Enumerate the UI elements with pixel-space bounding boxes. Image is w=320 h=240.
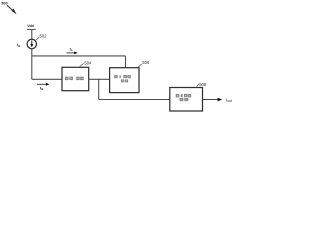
current arrow IL <box>67 52 78 55</box>
svg-text:504: 504 <box>84 60 92 65</box>
wire node A down left branch <box>31 56 33 79</box>
power label Vdd <box>27 24 34 28</box>
node A : main horizontal wire <box>32 55 126 57</box>
output arrow Iout <box>203 98 223 102</box>
label 506 with leader <box>138 60 150 67</box>
svg-text:B: B <box>18 44 20 48</box>
wire current source to node A <box>31 49 33 56</box>
svg-text:508: 508 <box>199 82 207 87</box>
svg-text:L: L <box>71 48 73 52</box>
svg-text:506: 506 <box>142 60 150 65</box>
svg-text:500: 500 <box>1 1 7 5</box>
label Iout <box>226 98 232 103</box>
wire 504 to 506 <box>89 78 110 80</box>
text in 506 line1 (blurred CJK) <box>114 75 131 78</box>
block 504 current module <box>62 67 89 90</box>
wire into module 504 <box>32 78 62 80</box>
text in 508 line2 (blurred CJK) <box>180 98 189 101</box>
label 504 with leader <box>80 60 92 67</box>
current arrow IB into 504 <box>37 83 50 86</box>
wire Vdd to current source <box>31 29 33 39</box>
label 502 with leader <box>36 34 48 41</box>
label IB under arrow <box>40 85 44 91</box>
junction drop wire to 508 <box>99 79 170 99</box>
svg-text:out: out <box>227 99 232 103</box>
label IB left of current source <box>17 42 21 48</box>
label 508 with leader <box>197 82 207 87</box>
wire node A right end down into 506 <box>125 56 127 68</box>
block 506 first conduction module <box>110 68 139 93</box>
current source 502 (circle with down arrow) <box>27 39 36 48</box>
block 508 second conduction module <box>170 88 203 112</box>
svg-text:B: B <box>41 87 43 91</box>
figure leader arrow for 500 <box>7 5 17 14</box>
text in 506 line2 (blurred CJK) <box>121 79 128 82</box>
power rail bar <box>27 28 36 30</box>
text in 508 line1 (blurred CJK) <box>176 94 192 97</box>
svg-text:502: 502 <box>40 34 48 39</box>
text in 504 (blurred CJK) <box>65 77 84 80</box>
label IL <box>70 46 74 52</box>
figure label 500 <box>1 1 7 5</box>
svg-text:Vdd: Vdd <box>27 24 34 28</box>
